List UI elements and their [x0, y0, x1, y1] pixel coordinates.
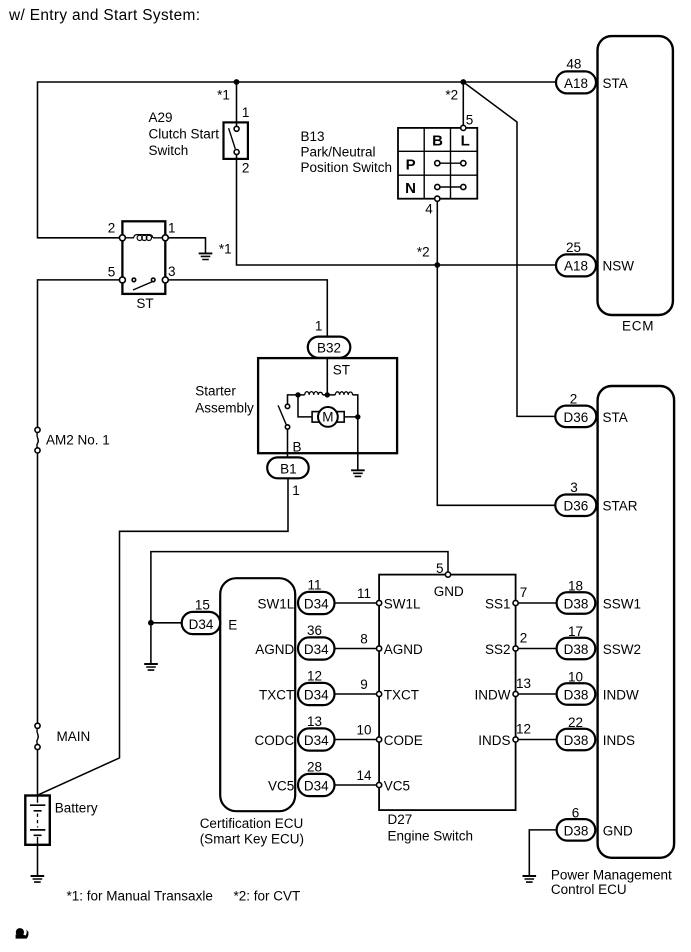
svg-text:2: 2: [520, 631, 528, 646]
svg-text:D34: D34: [304, 642, 329, 657]
svg-text:*2: *2: [445, 87, 458, 102]
svg-text:SW1L: SW1L: [258, 596, 295, 611]
svg-text:D27: D27: [388, 812, 413, 827]
svg-text:A18: A18: [564, 76, 588, 91]
svg-text:Certification ECU: Certification ECU: [200, 816, 304, 831]
svg-text:AGND: AGND: [384, 642, 423, 657]
svg-text:*1: *1: [217, 87, 230, 102]
svg-text:5: 5: [108, 264, 116, 279]
svg-text:L: L: [461, 132, 470, 149]
svg-text:GND: GND: [434, 584, 464, 599]
svg-text:*2: for CVT: *2: for CVT: [234, 888, 301, 903]
svg-text:14: 14: [356, 768, 372, 783]
svg-text:28: 28: [307, 760, 322, 775]
svg-text:3: 3: [570, 480, 578, 495]
svg-text:2: 2: [108, 220, 116, 235]
svg-text:B1: B1: [280, 462, 297, 477]
svg-text:INDS: INDS: [603, 733, 635, 748]
svg-text:Battery: Battery: [55, 801, 98, 816]
svg-text:25: 25: [566, 240, 581, 255]
svg-text:36: 36: [307, 623, 322, 638]
svg-text:D34: D34: [304, 733, 329, 748]
svg-text:D38: D38: [564, 823, 589, 838]
svg-text:1: 1: [168, 220, 176, 235]
svg-text:N: N: [405, 180, 416, 197]
svg-text:10: 10: [568, 670, 583, 685]
svg-text:D36: D36: [564, 499, 589, 514]
svg-text:2: 2: [242, 160, 250, 175]
svg-text:SW1L: SW1L: [384, 596, 421, 611]
svg-text:A29: A29: [149, 110, 173, 125]
svg-text:TXCT: TXCT: [259, 687, 294, 702]
svg-text:NSW: NSW: [603, 258, 635, 273]
svg-text:Switch: Switch: [149, 143, 189, 158]
svg-text:1: 1: [242, 105, 250, 120]
svg-text:Control ECU: Control ECU: [551, 882, 627, 897]
svg-text:AGND: AGND: [255, 642, 294, 657]
svg-text:M: M: [322, 410, 333, 425]
svg-text:5: 5: [466, 113, 474, 128]
svg-text:9: 9: [360, 677, 368, 692]
svg-text:STA: STA: [603, 76, 628, 91]
svg-text:B: B: [293, 440, 302, 455]
svg-text:D34: D34: [304, 687, 329, 702]
svg-text:D38: D38: [564, 687, 589, 702]
svg-text:Clutch Start: Clutch Start: [149, 127, 220, 142]
svg-text:Assembly: Assembly: [195, 401, 254, 416]
svg-text:P: P: [406, 156, 416, 173]
svg-text:*2: *2: [417, 245, 430, 260]
svg-text:11: 11: [307, 578, 321, 593]
svg-text:*1: for Manual Transaxle: *1: for Manual Transaxle: [67, 888, 213, 903]
svg-text:SS2: SS2: [485, 642, 511, 657]
svg-text:VC5: VC5: [268, 778, 294, 793]
svg-text:10: 10: [356, 723, 371, 738]
svg-text:VC5: VC5: [384, 778, 410, 793]
svg-text:ST: ST: [136, 296, 153, 311]
svg-text:B32: B32: [317, 340, 341, 355]
svg-text:5: 5: [436, 561, 444, 576]
svg-text:INDS: INDS: [478, 733, 510, 748]
svg-text:SS1: SS1: [485, 596, 511, 611]
svg-text:17: 17: [568, 624, 583, 639]
svg-text:1: 1: [292, 483, 300, 498]
svg-text:E: E: [228, 617, 237, 632]
svg-text:D34: D34: [304, 596, 329, 611]
svg-text:(Smart Key ECU): (Smart Key ECU): [200, 831, 304, 846]
svg-text:ECM: ECM: [622, 318, 654, 333]
svg-text:STAR: STAR: [603, 499, 638, 514]
svg-text:*1: *1: [219, 242, 232, 257]
svg-text:CODE: CODE: [384, 733, 423, 748]
svg-text:B13: B13: [301, 129, 325, 144]
svg-text:SSW1: SSW1: [603, 596, 641, 611]
svg-text:7: 7: [520, 585, 528, 600]
svg-text:12: 12: [307, 669, 322, 684]
svg-text:CODC: CODC: [255, 733, 295, 748]
svg-text:4: 4: [425, 202, 433, 217]
svg-text:w/ Entry and Start System:: w/ Entry and Start System:: [8, 7, 200, 24]
svg-text:MAIN: MAIN: [57, 729, 91, 744]
svg-text:Position Switch: Position Switch: [301, 160, 393, 175]
svg-text:6: 6: [572, 805, 580, 820]
svg-text:Power Management: Power Management: [551, 867, 672, 882]
svg-text:INDW: INDW: [475, 687, 511, 702]
svg-text:11: 11: [357, 586, 371, 601]
svg-text:Park/Neutral: Park/Neutral: [301, 145, 376, 160]
svg-text:STA: STA: [603, 410, 628, 425]
svg-text:48: 48: [566, 57, 581, 72]
svg-text:GND: GND: [603, 823, 633, 838]
svg-text:D38: D38: [564, 733, 589, 748]
svg-text:TXCT: TXCT: [384, 687, 419, 702]
svg-text:1: 1: [315, 319, 323, 334]
svg-text:18: 18: [568, 579, 583, 594]
svg-text:B: B: [432, 132, 443, 149]
svg-text:D38: D38: [564, 642, 589, 657]
svg-text:Engine Switch: Engine Switch: [388, 829, 474, 844]
svg-text:Starter: Starter: [195, 384, 236, 399]
svg-text:22: 22: [568, 715, 583, 730]
svg-text:8: 8: [360, 632, 368, 647]
svg-text:ST: ST: [333, 362, 350, 377]
svg-text:D34: D34: [304, 778, 329, 793]
svg-text:SSW2: SSW2: [603, 642, 641, 657]
svg-text:3: 3: [168, 264, 176, 279]
svg-text:13: 13: [307, 714, 322, 729]
svg-text:D34: D34: [189, 617, 214, 632]
svg-text:12: 12: [516, 722, 531, 737]
svg-text:D36: D36: [564, 410, 589, 425]
svg-text:2: 2: [570, 391, 578, 406]
svg-text:A18: A18: [564, 259, 588, 274]
svg-text:D38: D38: [564, 596, 589, 611]
svg-text:13: 13: [516, 676, 531, 691]
svg-text:INDW: INDW: [603, 687, 639, 702]
svg-text:15: 15: [195, 598, 210, 613]
svg-text:AM2 No. 1: AM2 No. 1: [46, 433, 110, 448]
